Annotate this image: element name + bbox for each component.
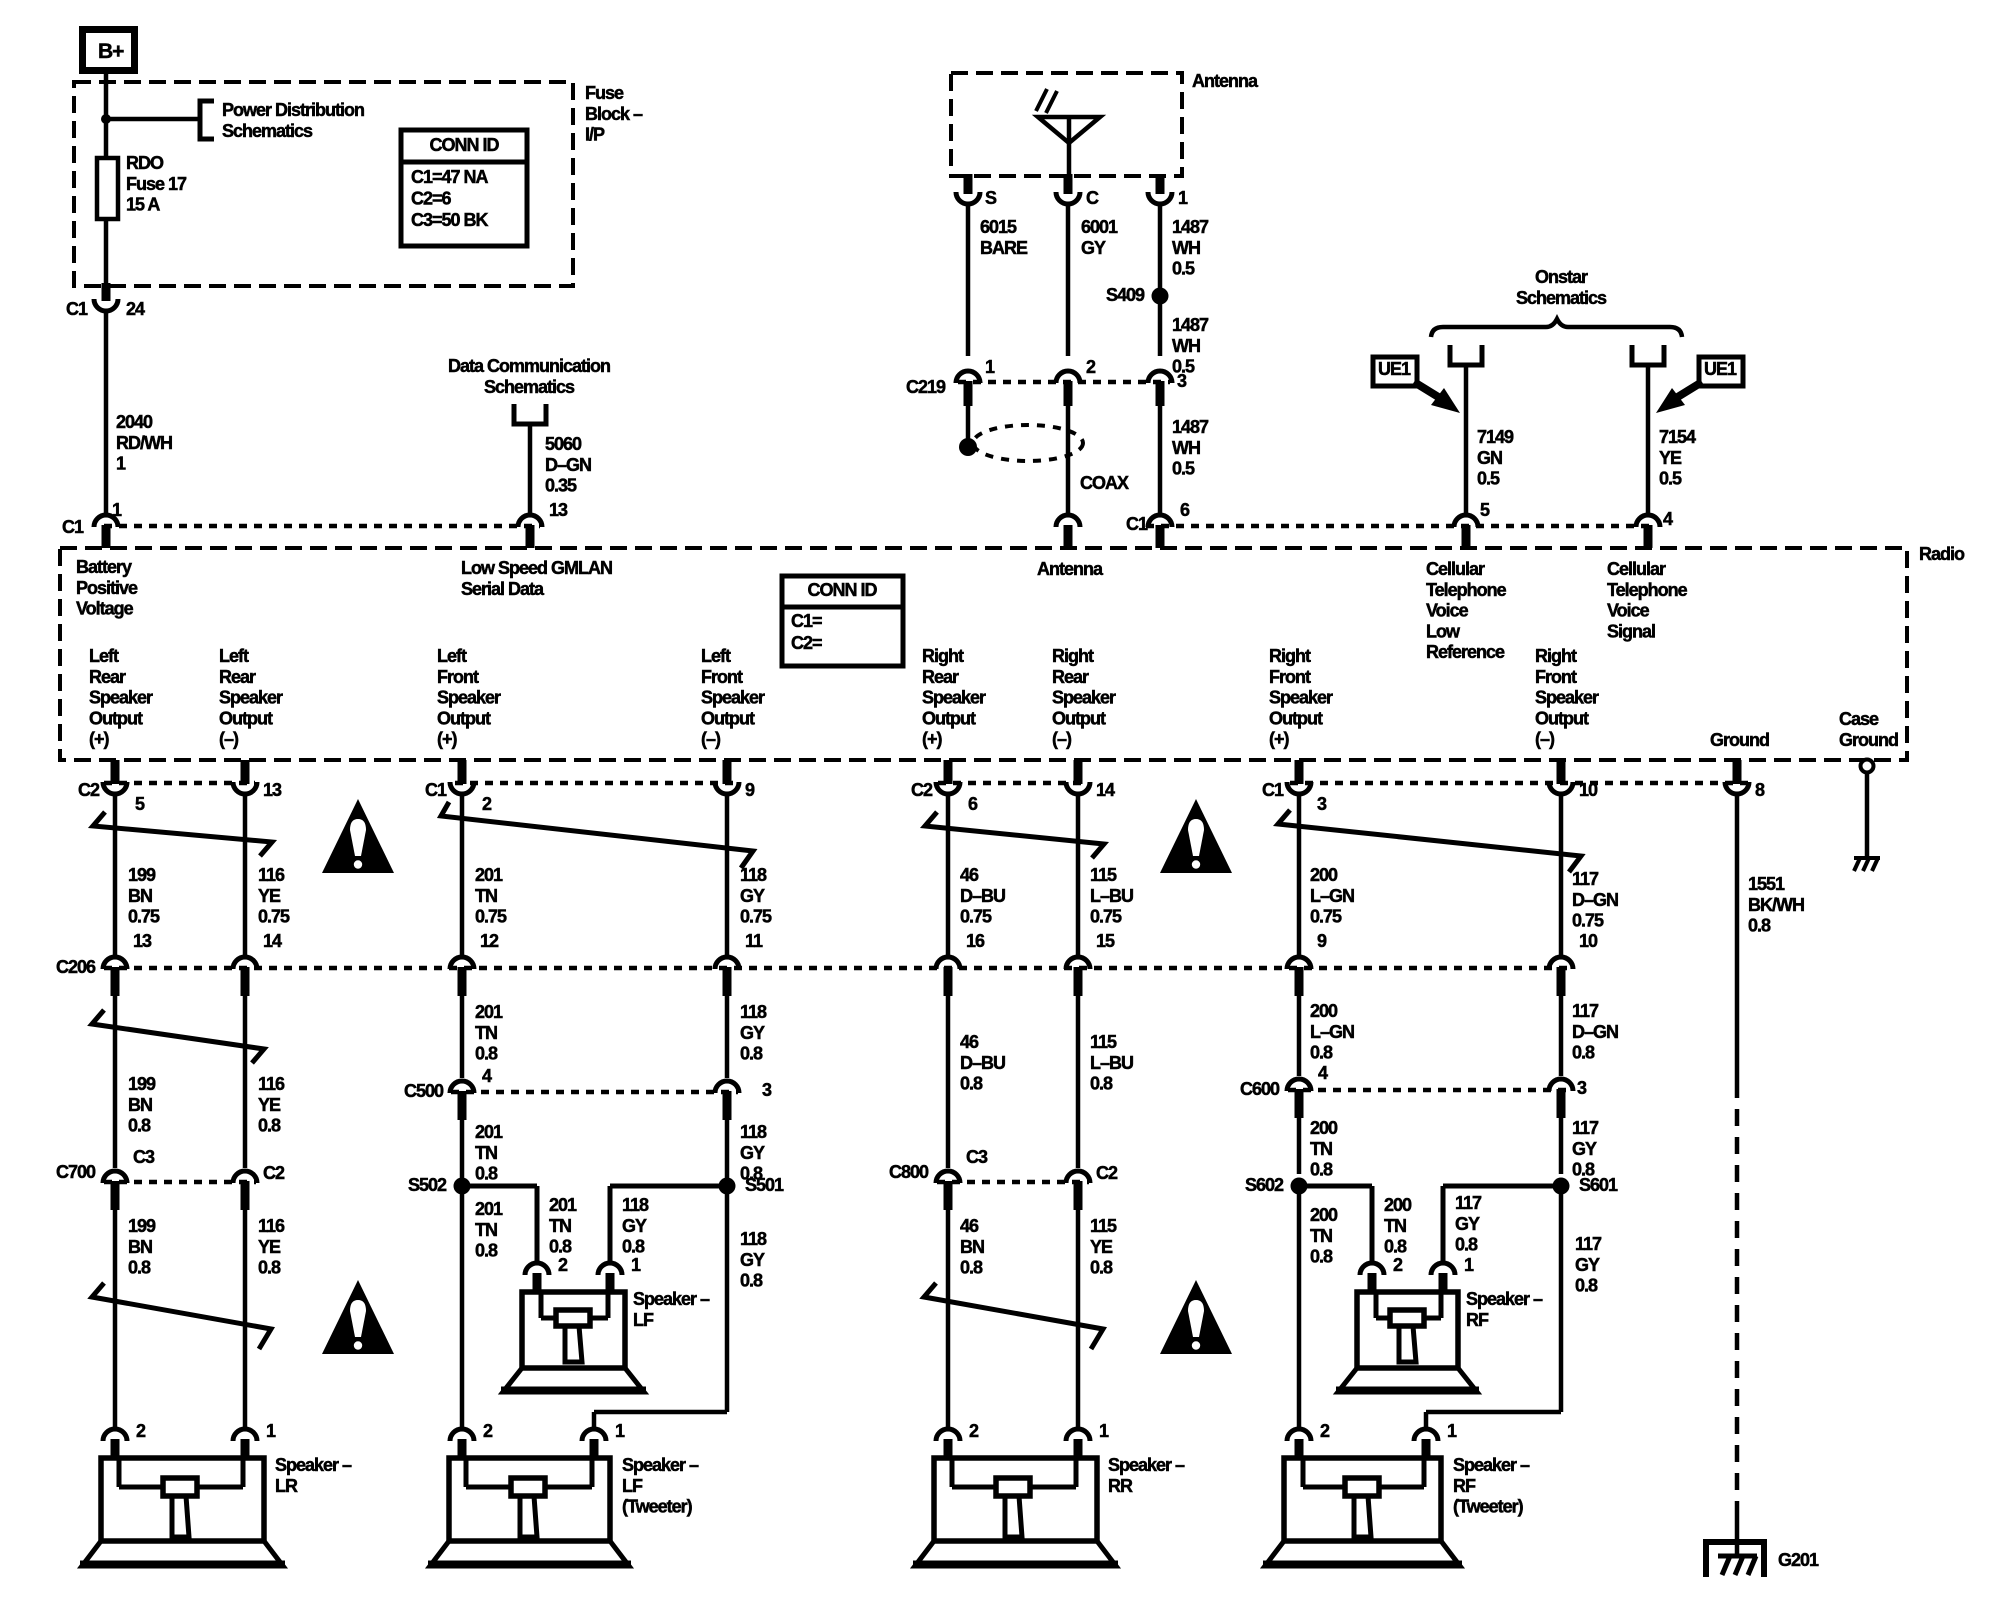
svg-text:L–GN: L–GN: [1310, 1022, 1354, 1042]
svg-text:S501: S501: [745, 1175, 784, 1195]
svg-text:0.75: 0.75: [1572, 911, 1604, 931]
svg-text:2: 2: [969, 1421, 979, 1441]
speaker LF (door): [522, 1292, 625, 1368]
svg-text:C600: C600: [1240, 1079, 1280, 1099]
C219 pin 3: [1148, 371, 1172, 383]
wire 199 BN 0.8 lower: [113, 1210, 118, 1429]
radio case ground terminal: [1861, 760, 1874, 773]
svg-text:199: 199: [128, 1074, 156, 1094]
svg-text:LR: LR: [275, 1476, 298, 1496]
svg-text:YE: YE: [258, 1237, 281, 1257]
svg-text:0.8: 0.8: [1384, 1237, 1407, 1257]
svg-text:200: 200: [1310, 1205, 1338, 1225]
wire to Power Distribution tap: [106, 117, 199, 122]
svg-text:Speaker –: Speaker –: [275, 1455, 352, 1475]
svg-text:C2: C2: [1096, 1163, 1118, 1183]
wire 200 L-GN 0.75: [1297, 795, 1302, 956]
speaker LR pin 1: [233, 1429, 257, 1441]
svg-text:5060: 5060: [545, 434, 582, 454]
svg-text:2: 2: [1320, 1421, 1330, 1441]
svg-text:Speaker –: Speaker –: [1453, 1455, 1530, 1475]
svg-text:G201: G201: [1778, 1550, 1819, 1570]
wire 116 YE 0.8 mid: [243, 996, 248, 1168]
svg-text:201: 201: [475, 1199, 503, 1219]
svg-text:0.8: 0.8: [1310, 1160, 1333, 1180]
svg-text:WH: WH: [1172, 336, 1200, 356]
wire 46 BN 0.8 lower: [946, 1210, 951, 1429]
wire 1487 WH to radio pin 6: [1158, 406, 1163, 513]
radio C2 pin 6: [936, 782, 960, 794]
svg-text:16: 16: [966, 931, 985, 951]
svg-text:GY: GY: [1572, 1139, 1597, 1159]
svg-text:7154: 7154: [1659, 427, 1696, 447]
svg-text:YE: YE: [1659, 448, 1682, 468]
svg-text:118: 118: [740, 1122, 767, 1142]
svg-text:0.5: 0.5: [1659, 469, 1682, 489]
CONN ID table (fuse block): [401, 130, 527, 246]
svg-text:S602: S602: [1245, 1175, 1284, 1195]
twisted-pair mark LR middle: [92, 1010, 264, 1063]
svg-text:5: 5: [1480, 500, 1490, 520]
wire 201 TN 0.8 to S502: [460, 1120, 465, 1178]
C800 pin C3: [936, 1171, 960, 1183]
svg-text:1: 1: [631, 1255, 641, 1275]
svg-text:COAX: COAX: [1080, 473, 1129, 493]
svg-text:Fuse 17: Fuse 17: [126, 174, 187, 194]
svg-text:S: S: [985, 188, 997, 208]
off-page bracket cellular voice low ref: [1450, 345, 1482, 365]
svg-text:1: 1: [1178, 188, 1188, 208]
svg-text:Output: Output: [437, 708, 491, 728]
svg-text:117: 117: [1572, 869, 1599, 889]
svg-text:Speaker: Speaker: [437, 688, 501, 708]
twisted-pair mark RR top: [925, 812, 1104, 858]
svg-text:3: 3: [1577, 1078, 1587, 1098]
LF speaker pin 1: [598, 1263, 622, 1275]
svg-text:4: 4: [1663, 509, 1673, 529]
svg-text:YE: YE: [258, 1095, 281, 1115]
svg-text:2: 2: [482, 794, 492, 814]
connector C206 dotted line: [104, 966, 1570, 971]
warning triangle 4: [1160, 1280, 1232, 1354]
svg-text:4: 4: [482, 1066, 492, 1086]
svg-text:0.75: 0.75: [1090, 907, 1122, 927]
svg-text:14: 14: [1096, 780, 1115, 800]
wire fuse to connector C1 pin 24: [104, 219, 109, 286]
svg-text:Voice: Voice: [1426, 601, 1469, 621]
wire 201 TN 0.75: [460, 795, 465, 956]
svg-text:GY: GY: [622, 1216, 647, 1236]
svg-text:14: 14: [263, 931, 282, 951]
svg-text:Voltage: Voltage: [76, 599, 134, 619]
svg-text:11: 11: [745, 931, 763, 951]
svg-text:Speaker –: Speaker –: [622, 1455, 699, 1475]
svg-text:Output: Output: [701, 708, 755, 728]
svg-text:200: 200: [1310, 865, 1338, 885]
svg-text:0.75: 0.75: [128, 907, 160, 927]
chassis ground (case): [1854, 856, 1880, 860]
svg-text:117: 117: [1572, 1118, 1599, 1138]
svg-text:Right: Right: [1052, 646, 1094, 666]
svg-text:RD/WH: RD/WH: [116, 433, 172, 453]
svg-text:C1: C1: [1262, 780, 1284, 800]
svg-text:1: 1: [1464, 1255, 1474, 1275]
svg-text:CONN ID: CONN ID: [430, 135, 500, 155]
svg-text:6001: 6001: [1081, 217, 1118, 237]
wire 7149 GN: [1464, 365, 1469, 513]
svg-text:(–): (–): [1535, 729, 1555, 749]
wire 200 L-GN 0.8 mid: [1297, 996, 1302, 1076]
svg-text:0.8: 0.8: [1090, 1258, 1113, 1278]
svg-text:BN: BN: [128, 886, 152, 906]
svg-text:C700: C700: [56, 1162, 96, 1182]
svg-text:C3=50 BK: C3=50 BK: [411, 210, 489, 230]
svg-text:Output: Output: [1269, 708, 1323, 728]
wire 200 TN 0.8 to RF tweeter: [1297, 1186, 1302, 1429]
twisted-pair mark LF top: [441, 802, 753, 868]
svg-text:0.8: 0.8: [549, 1237, 572, 1257]
svg-text:L–BU: L–BU: [1090, 886, 1133, 906]
CONN ID table (radio): [782, 576, 903, 666]
svg-text:Speaker: Speaker: [1535, 688, 1599, 708]
svg-text:2: 2: [483, 1421, 493, 1441]
warning triangle 2: [1160, 799, 1232, 873]
svg-text:C1: C1: [1126, 514, 1148, 534]
svg-text:15: 15: [1096, 931, 1115, 951]
svg-text:Left: Left: [219, 646, 249, 666]
svg-text:0.8: 0.8: [258, 1258, 281, 1278]
svg-text:3: 3: [762, 1080, 772, 1100]
speaker RR pin 2: [936, 1429, 960, 1441]
svg-text:GY: GY: [1081, 238, 1106, 258]
svg-text:C2: C2: [911, 780, 933, 800]
svg-text:(Tweeter): (Tweeter): [622, 1497, 693, 1517]
svg-text:115: 115: [1090, 1032, 1117, 1052]
svg-text:C1=: C1=: [791, 611, 822, 631]
svg-text:Cellular: Cellular: [1607, 559, 1666, 579]
svg-text:Output: Output: [1535, 708, 1589, 728]
svg-text:S409: S409: [1106, 285, 1145, 305]
svg-text:Low: Low: [1426, 621, 1461, 641]
svg-text:0.8: 0.8: [740, 1271, 763, 1291]
svg-text:GY: GY: [740, 1023, 765, 1043]
svg-text:3: 3: [1177, 371, 1187, 391]
svg-text:C219: C219: [906, 377, 946, 397]
svg-text:Radio: Radio: [1919, 544, 1965, 564]
svg-text:Schematics: Schematics: [222, 121, 313, 141]
C600 pin 4: [1287, 1079, 1311, 1091]
svg-text:8: 8: [1755, 780, 1765, 800]
wire 201 TN 0.8 mid: [460, 996, 465, 1078]
svg-text:TN: TN: [1384, 1216, 1406, 1236]
C600 pin 3: [1549, 1079, 1573, 1091]
svg-text:C2: C2: [78, 780, 100, 800]
wire 115 YE 0.8 lower: [1076, 1210, 1081, 1429]
svg-text:(–): (–): [219, 729, 239, 749]
svg-text:12: 12: [480, 931, 499, 951]
svg-text:BARE: BARE: [980, 238, 1028, 258]
svg-text:0.8: 0.8: [475, 1044, 498, 1064]
svg-text:Reference: Reference: [1426, 642, 1505, 662]
svg-text:Left: Left: [437, 646, 467, 666]
wire into G201: [1735, 1508, 1740, 1556]
svg-text:Cellular: Cellular: [1426, 559, 1485, 579]
svg-text:TN: TN: [1310, 1139, 1332, 1159]
svg-text:0.8: 0.8: [128, 1116, 151, 1136]
branch S501 to LF speaker pin 1: [610, 1184, 727, 1189]
svg-text:Speaker: Speaker: [89, 688, 153, 708]
wire 7154 YE: [1646, 365, 1651, 513]
wire 116 YE 0.75: [243, 795, 248, 956]
wire 1551 BK/WH solid: [1735, 795, 1740, 1081]
svg-text:C2: C2: [263, 1163, 285, 1183]
svg-text:C3: C3: [133, 1147, 155, 1167]
twisted-pair mark LR bottom: [92, 1283, 271, 1349]
svg-text:TN: TN: [1310, 1226, 1332, 1246]
speaker RF tweeter pin 1: [1414, 1429, 1438, 1441]
svg-text:Speaker –: Speaker –: [1108, 1455, 1185, 1475]
svg-text:0.8: 0.8: [960, 1074, 983, 1094]
svg-text:4: 4: [1318, 1063, 1328, 1083]
svg-text:C1: C1: [62, 517, 84, 537]
C206 pin 12: [450, 957, 474, 969]
off-page bracket cellular voice signal: [1632, 345, 1664, 365]
radio C1 pin 2: [450, 782, 474, 794]
svg-text:0.8: 0.8: [1748, 916, 1771, 936]
warning triangle 3: [322, 1280, 394, 1354]
svg-text:Speaker –: Speaker –: [633, 1289, 710, 1309]
svg-text:0.8: 0.8: [1455, 1235, 1478, 1255]
svg-text:118: 118: [740, 865, 767, 885]
svg-text:LF: LF: [622, 1476, 643, 1496]
splice S409: [1152, 288, 1169, 305]
radio dashed box: [60, 548, 1907, 760]
svg-text:0.75: 0.75: [740, 907, 772, 927]
svg-text:Telephone: Telephone: [1426, 580, 1507, 600]
svg-text:199: 199: [128, 1216, 156, 1236]
svg-text:117: 117: [1575, 1234, 1602, 1254]
antenna wave marks: [1036, 89, 1047, 111]
svg-text:116: 116: [258, 1074, 285, 1094]
svg-text:2: 2: [1086, 357, 1096, 377]
svg-text:0.8: 0.8: [960, 1258, 983, 1278]
C206 pin 16: [936, 957, 960, 969]
antenna pin S: [956, 192, 980, 204]
svg-text:1551: 1551: [1748, 874, 1785, 894]
svg-text:2: 2: [136, 1421, 146, 1441]
brace over Onstar connections: [1431, 319, 1682, 337]
svg-text:(+): (+): [89, 729, 110, 749]
wire 5060 D-GN: [528, 424, 533, 513]
svg-text:UE1: UE1: [1704, 359, 1737, 379]
wire 117 GY 0.8 to S601: [1559, 1118, 1564, 1174]
svg-text:13: 13: [263, 780, 282, 800]
svg-text:46: 46: [960, 1032, 979, 1052]
splice S601: [1553, 1178, 1570, 1195]
C500 pin 3: [715, 1081, 739, 1093]
svg-text:GY: GY: [740, 1143, 765, 1163]
C500 pin 4: [450, 1081, 474, 1093]
wire 200 TN 0.8 to S602: [1297, 1118, 1302, 1174]
splice S501: [719, 1178, 736, 1195]
svg-text:D–GN: D–GN: [1572, 1022, 1618, 1042]
svg-text:1: 1: [116, 454, 126, 474]
svg-text:Output: Output: [89, 708, 143, 728]
twisted-pair mark RF top: [1278, 810, 1581, 872]
svg-text:(Tweeter): (Tweeter): [1453, 1497, 1524, 1517]
svg-text:C3: C3: [966, 1147, 988, 1167]
speaker LF tweeter pin 1: [582, 1429, 606, 1441]
svg-text:200: 200: [1384, 1195, 1412, 1215]
svg-text:Schematics: Schematics: [1516, 288, 1607, 308]
speaker RF tweeter pin 2: [1287, 1429, 1311, 1441]
svg-text:BK/WH: BK/WH: [1748, 895, 1804, 915]
svg-text:GY: GY: [1575, 1255, 1600, 1275]
svg-text:D–BU: D–BU: [960, 1053, 1005, 1073]
svg-text:Ground: Ground: [1710, 730, 1769, 750]
svg-text:Speaker: Speaker: [1052, 688, 1116, 708]
warning triangle 1: [322, 799, 394, 873]
C219 pin 1: [956, 371, 980, 383]
svg-text:116: 116: [258, 1216, 285, 1236]
antenna module dashed box: [951, 73, 1182, 176]
svg-text:C2=: C2=: [791, 633, 822, 653]
wire 116 YE 0.8 lower: [243, 1210, 248, 1429]
antenna pin C: [1056, 192, 1080, 204]
svg-text:Low Speed GMLAN: Low Speed GMLAN: [461, 558, 612, 578]
svg-text:1: 1: [615, 1421, 625, 1441]
wire 118 GY 0.8 to S501: [725, 1120, 730, 1178]
wire 1551 BK/WH dashed run: [1735, 1081, 1740, 1508]
svg-text:0.5: 0.5: [1477, 469, 1500, 489]
C800 pin C2: [1066, 1171, 1090, 1183]
wire 118 GY 0.75: [725, 795, 730, 956]
svg-text:Case: Case: [1839, 709, 1879, 729]
wire B+ to fuse: [104, 72, 109, 160]
speaker RR: [934, 1458, 1097, 1541]
svg-text:Serial Data: Serial Data: [461, 579, 545, 599]
svg-text:6: 6: [1180, 500, 1190, 520]
svg-text:Right: Right: [922, 646, 964, 666]
wire 6015 BARE: [966, 205, 971, 356]
wire 118 GY 0.8 to LF tweeter pin 1: [725, 1186, 730, 1412]
case ground wire: [1865, 772, 1870, 858]
svg-text:C500: C500: [404, 1081, 444, 1101]
C206 pin 15: [1066, 957, 1090, 969]
svg-text:0.8: 0.8: [1310, 1043, 1333, 1063]
svg-text:Schematics: Schematics: [484, 377, 575, 397]
svg-text:C1: C1: [425, 780, 447, 800]
svg-text:Rear: Rear: [1052, 667, 1089, 687]
svg-text:0.8: 0.8: [1575, 1276, 1598, 1296]
svg-text:C2=6: C2=6: [411, 189, 452, 209]
svg-text:LF: LF: [633, 1310, 654, 1330]
svg-text:GY: GY: [1455, 1214, 1480, 1234]
svg-text:10: 10: [1579, 931, 1598, 951]
antenna symbol: [1038, 117, 1100, 143]
svg-text:6015: 6015: [980, 217, 1017, 237]
C206 pin 10: [1549, 957, 1573, 969]
radio C1 pin 3: [1287, 782, 1311, 794]
shield dashed ellipse: [973, 425, 1083, 461]
svg-text:RR: RR: [1108, 1476, 1133, 1496]
svg-text:C800: C800: [889, 1162, 929, 1182]
svg-text:S502: S502: [408, 1175, 447, 1195]
C206 pin 14: [233, 957, 257, 969]
svg-text:1: 1: [985, 357, 995, 377]
radio C1 connector dotted line (left segment): [104, 524, 540, 529]
speaker LF tweeter pin 2: [450, 1429, 474, 1441]
svg-text:0.8: 0.8: [740, 1044, 763, 1064]
C700 pin C3: [103, 1171, 127, 1183]
svg-text:0.8: 0.8: [258, 1116, 281, 1136]
svg-text:BN: BN: [128, 1095, 152, 1115]
wire 115 L-BU 0.75: [1076, 795, 1081, 956]
svg-text:Positive: Positive: [76, 578, 138, 598]
wire 117 GY 0.8 to RF tweeter pin 1: [1559, 1186, 1564, 1412]
svg-text:2: 2: [1393, 1255, 1403, 1275]
svg-text:46: 46: [960, 1216, 979, 1236]
svg-text:BN: BN: [128, 1237, 152, 1257]
svg-text:9: 9: [745, 780, 755, 800]
speaker LR pin 2: [103, 1429, 127, 1441]
svg-text:C206: C206: [56, 957, 96, 977]
radio C2 pin 14: [1066, 782, 1090, 794]
svg-text:Speaker: Speaker: [1269, 688, 1333, 708]
svg-text:46: 46: [960, 865, 979, 885]
wire 117 D-GN 0.75: [1559, 795, 1564, 956]
svg-text:Right: Right: [1269, 646, 1311, 666]
wire 199 BN 0.75: [113, 795, 118, 956]
svg-text:Output: Output: [219, 708, 273, 728]
svg-text:Power Distribution: Power Distribution: [222, 100, 364, 120]
svg-text:D–GN: D–GN: [545, 455, 591, 475]
svg-text:201: 201: [475, 1122, 503, 1142]
speaker RR pin 1: [1066, 1429, 1090, 1441]
radio C1 pin 8 ground: [1725, 782, 1749, 794]
svg-text:Data Communication: Data Communication: [448, 356, 610, 376]
speaker RF (door): [1357, 1292, 1458, 1368]
svg-text:201: 201: [475, 865, 503, 885]
svg-text:C1=47 NA: C1=47 NA: [411, 167, 489, 187]
svg-text:WH: WH: [1172, 238, 1200, 258]
svg-text:1: 1: [1447, 1421, 1457, 1441]
junction at B+ feed: [101, 114, 111, 124]
svg-text:201: 201: [475, 1002, 503, 1022]
antenna pin 1: [1148, 192, 1172, 204]
svg-text:CONN ID: CONN ID: [808, 580, 878, 600]
svg-text:Speaker: Speaker: [922, 688, 986, 708]
svg-text:C1: C1: [66, 299, 88, 319]
connector C1 pin 24 (fuse block): [94, 299, 118, 311]
speaker LR: [101, 1458, 264, 1541]
svg-text:1: 1: [1099, 1421, 1109, 1441]
svg-text:Front: Front: [1535, 667, 1577, 687]
svg-text:117: 117: [1572, 1001, 1599, 1021]
radio C1 pin 9: [715, 782, 739, 794]
svg-text:Rear: Rear: [922, 667, 959, 687]
svg-text:Ground: Ground: [1839, 730, 1898, 750]
svg-text:GN: GN: [1477, 448, 1502, 468]
C700 pin C2: [233, 1171, 257, 1183]
RF speaker pin 1: [1431, 1263, 1455, 1275]
svg-text:7149: 7149: [1477, 427, 1514, 447]
svg-text:Block –: Block –: [585, 104, 643, 124]
svg-text:(+): (+): [922, 729, 943, 749]
svg-text:15 A: 15 A: [126, 195, 160, 215]
svg-text:UE1: UE1: [1378, 359, 1411, 379]
svg-text:Speaker –: Speaker –: [1466, 1289, 1543, 1309]
